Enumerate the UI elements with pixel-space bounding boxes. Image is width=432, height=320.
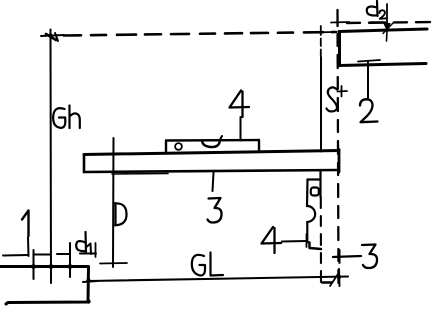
- tick on item 2 bottom edge: [358, 60, 380, 62]
- square hole in bracket: [311, 188, 319, 196]
- rail left end cap: [83, 155, 86, 173]
- item 2 bottom edge: [339, 64, 426, 66]
- label 3 (center): [208, 198, 222, 223]
- GL baseline: [89, 277, 349, 282]
- junction ink blobs: [31, 33, 341, 303]
- tick x=68 on part 1 baseline: [69, 243, 71, 277]
- part 1 outline (bottom-left step): [0, 267, 89, 305]
- label d2: [367, 1, 378, 16]
- leader for center label 3: [213, 173, 214, 192]
- label GL: [192, 253, 223, 276]
- rail right end cap: [338, 150, 341, 173]
- dashed vertical line x=338: [338, 10, 339, 283]
- S dimension line (dashes then solid): [320, 39, 322, 57]
- label d1: [76, 232, 86, 252]
- block item 4 on rail: [166, 140, 259, 153]
- bracket foot at bottom: [322, 281, 332, 283]
- cross at bottom of D line: [100, 262, 127, 265]
- dash left of d2 arrow: [371, 21, 385, 23]
- item 2 left edge: [338, 32, 341, 66]
- label 3 (right): [362, 245, 377, 269]
- rail bottom overtrace: [112, 173, 168, 176]
- bracket notch (semicircle): [307, 206, 315, 222]
- hole in block: [175, 143, 182, 150]
- d1 dimension line at y=254: [3, 254, 96, 256]
- tick x=33 on part 1 baseline: [33, 250, 35, 279]
- rail item 3 bottom edge: [84, 170, 339, 172]
- bracket left edge lower: [306, 222, 308, 242]
- bracket left edge upper: [306, 180, 309, 207]
- cross at top of Gh line: [41, 30, 64, 44]
- curved detail on block: [202, 141, 220, 148]
- small cross on dashed line right of S: [338, 86, 348, 97]
- label S: [327, 87, 338, 111]
- label Gh: [53, 106, 80, 129]
- label 1: [22, 211, 29, 237]
- bracket right edge hidden (dashed): [320, 197, 322, 282]
- cross on dashed line for label 3: [339, 250, 341, 263]
- label 4 (top): [230, 91, 250, 118]
- leader for right label 3: [333, 256, 361, 257]
- item 2 channel top edge: [339, 29, 427, 32]
- leader for label 1: [27, 237, 30, 256]
- bracket bottom step: [307, 242, 321, 249]
- rail item 3 top edge: [84, 151, 339, 155]
- label 4 (bottom): [262, 227, 282, 253]
- bracket top step: [308, 178, 321, 180]
- leader for label 2: [367, 62, 369, 98]
- leader for bottom label 4: [282, 240, 306, 243]
- bracket below rail: right edge solid: [319, 170, 321, 197]
- top dashed reference line (right portion): [347, 22, 432, 23]
- tick x=96 right of d1: [95, 243, 97, 257]
- D dimension line: [112, 138, 115, 267]
- top dashed reference line (left portion): [64, 32, 336, 36]
- cross at right end of GL: [338, 269, 341, 286]
- Gh dimension line: [50, 36, 53, 284]
- tick at end of leader: [306, 234, 308, 247]
- label 2: [360, 99, 378, 122]
- leader for top label 4: [240, 117, 242, 141]
- cross at left end of GL: [83, 281, 97, 282]
- d2 arrow: [386, 4, 388, 26]
- label D: [115, 203, 127, 226]
- cross at junction of dashed lines: [331, 21, 349, 24]
- cross at top of S dimension line: [312, 31, 333, 34]
